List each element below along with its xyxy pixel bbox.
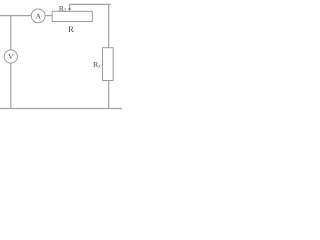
wire ammeter to rheostat: [45, 15, 52, 17]
wire right vertical lower: [108, 81, 110, 109]
resistor Rx body: [103, 48, 114, 81]
wire right vertical upper: [108, 4, 110, 47]
wire bottom horizontal: [0, 108, 122, 110]
svg-text:R1: R1: [59, 4, 67, 14]
wire slider to top-right: [70, 3, 111, 5]
voltmeter V: [4, 50, 17, 63]
rheostat R body: [52, 11, 92, 21]
wire top-left horizontal: [0, 15, 31, 17]
svg-text:V: V: [8, 52, 14, 61]
wire voltmeter branch upper: [10, 16, 12, 50]
svg-text:A: A: [35, 12, 41, 21]
wire voltmeter branch lower: [10, 63, 12, 108]
svg-text:Rx: Rx: [93, 60, 101, 69]
ammeter A: [31, 9, 45, 23]
svg-text:R: R: [68, 24, 74, 34]
rheostat slider arrow: [68, 4, 71, 11]
